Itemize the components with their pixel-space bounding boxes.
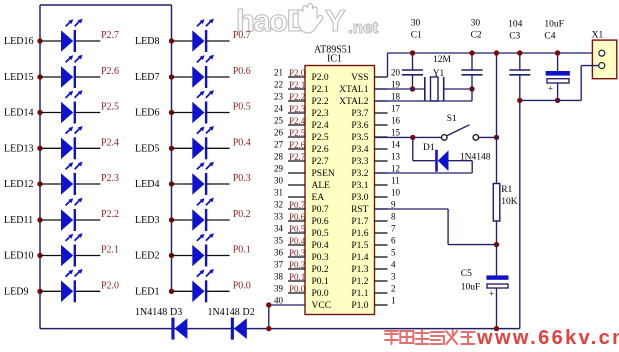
pin 40 (VCC) left stub [274, 296, 331, 312]
svg-text:P2.4: P2.4 [101, 137, 119, 148]
svg-text:1: 1 [391, 296, 396, 306]
svg-text:P2.1: P2.1 [101, 245, 119, 256]
svg-text:P0.6: P0.6 [289, 212, 306, 222]
svg-text:P1.0: P1.0 [351, 301, 368, 311]
svg-text:P0.7: P0.7 [312, 205, 329, 215]
svg-text:LED10: LED10 [4, 251, 33, 262]
LED LED7 [135, 55, 230, 88]
svg-text:32: 32 [274, 200, 283, 210]
svg-text:D3: D3 [170, 307, 182, 318]
svg-text:19: 19 [391, 80, 401, 90]
svg-text:P0.3: P0.3 [312, 253, 329, 263]
svg-text:C5: C5 [461, 269, 472, 279]
svg-text:104: 104 [508, 20, 522, 30]
svg-text:P0.0: P0.0 [312, 289, 329, 299]
pin 22 (P2.1) left stub [274, 80, 329, 96]
svg-text:P3.2: P3.2 [351, 169, 368, 179]
svg-text:24: 24 [274, 104, 284, 114]
svg-text:16: 16 [391, 116, 401, 126]
svg-text:VCC: VCC [312, 301, 332, 311]
svg-text:RST: RST [351, 205, 369, 215]
svg-text:34: 34 [274, 224, 284, 234]
wire P3.5 pin15 to switch [375, 135, 442, 140]
svg-text:LED9: LED9 [4, 286, 28, 297]
svg-text:1N4148: 1N4148 [135, 307, 167, 318]
svg-text:8: 8 [391, 212, 396, 222]
svg-text:LED12: LED12 [4, 179, 33, 190]
svg-text:31: 31 [274, 188, 283, 198]
svg-text:P2.6: P2.6 [312, 145, 329, 155]
diode D1 1N4148 [413, 137, 491, 173]
pin 30 (ALE) left stub [274, 176, 330, 192]
LED LED13 [4, 126, 100, 159]
svg-text:IC1: IC1 [327, 54, 342, 65]
svg-text:9: 9 [391, 200, 396, 210]
svg-text:21: 21 [274, 68, 283, 78]
pin 11 (P3.1) right stub [351, 176, 399, 192]
pin 1 (P1.0) right stub [351, 296, 395, 312]
svg-text:10uF: 10uF [544, 20, 564, 30]
svg-text:P1.4: P1.4 [351, 253, 368, 263]
svg-text:P2.6: P2.6 [101, 66, 119, 77]
pin 24 (P2.3) left stub [274, 104, 329, 120]
pin 36 (P0.3) left stub [274, 248, 329, 264]
pin 19 (XTAL1) right stub [339, 80, 400, 96]
wire P3.3 pin13 to D1 anode [375, 172, 473, 174]
pin 35 (P0.4) left stub [274, 236, 329, 252]
LED LED11 [4, 198, 100, 231]
svg-text:P0.1: P0.1 [312, 277, 329, 287]
svg-text:P1.5: P1.5 [351, 241, 368, 251]
svg-text:P2.2: P2.2 [289, 92, 305, 102]
connector X1 [592, 31, 617, 79]
LED LED8 [135, 19, 230, 52]
svg-text:10: 10 [391, 188, 401, 198]
svg-text:P2.0: P2.0 [101, 280, 119, 291]
switch S1 [442, 114, 479, 140]
svg-text:P2.3: P2.3 [289, 104, 306, 114]
svg-text:7: 7 [391, 224, 396, 234]
pin 2 (P1.1) right stub [351, 284, 395, 300]
svg-text:XTAL2: XTAL2 [339, 97, 369, 107]
svg-text:P0.7: P0.7 [233, 30, 251, 41]
svg-text:+: + [548, 84, 553, 94]
svg-text:P0.4: P0.4 [289, 236, 306, 246]
node P2.0 (wire label) [101, 280, 119, 291]
diode D3 1N4148 [135, 307, 187, 340]
svg-text:35: 35 [274, 236, 284, 246]
svg-text:P3.4: P3.4 [351, 145, 368, 155]
svg-text:P3.5: P3.5 [351, 133, 368, 143]
svg-text:37: 37 [274, 260, 284, 270]
svg-text:10K: 10K [501, 197, 518, 207]
svg-text:12: 12 [391, 164, 400, 174]
wire top rail of LED box [40, 4, 172, 6]
svg-text:LED7: LED7 [135, 72, 159, 83]
svg-text:1N4148: 1N4148 [460, 152, 491, 162]
svg-text:www.66kv.cn: www.66kv.cn [476, 327, 619, 347]
svg-text:3: 3 [391, 272, 396, 282]
svg-text:C1: C1 [411, 31, 422, 41]
node P0.2 (wire label) [233, 209, 251, 220]
pin 38 (P0.1) left stub [274, 272, 329, 288]
svg-text:P1.6: P1.6 [351, 229, 368, 239]
svg-text:P0.2: P0.2 [312, 265, 329, 275]
wire left LED bus [39, 5, 41, 329]
svg-text:15: 15 [391, 128, 401, 138]
decorative watermark (not circuit) [385, 330, 475, 344]
node P2.1 (wire label) [101, 245, 119, 256]
pin 3 (P1.2) right stub [351, 272, 396, 288]
svg-text:+: + [489, 289, 494, 299]
pin 6 (P1.5) right stub [351, 236, 396, 252]
svg-text:20: 20 [391, 68, 401, 78]
svg-text:P2.7: P2.7 [312, 157, 329, 167]
svg-text:LED15: LED15 [4, 72, 33, 83]
pin 27 (P2.6) left stub [274, 140, 329, 156]
svg-text:P3.7: P3.7 [351, 109, 368, 119]
pin 26 (P2.5) left stub [274, 128, 329, 144]
pin 21 (P2.0) left stub [274, 68, 329, 84]
svg-text:P2.5: P2.5 [312, 133, 329, 143]
pin 4 (P1.3) right stub [351, 260, 396, 276]
LED LED15 [4, 55, 100, 88]
svg-text:P0.2: P0.2 [289, 260, 305, 270]
svg-text:P0.1: P0.1 [289, 272, 305, 282]
svg-text:30: 30 [274, 176, 284, 186]
svg-text:P0.3: P0.3 [289, 248, 306, 258]
LED LED5 [135, 126, 230, 159]
svg-text:P2.4: P2.4 [312, 121, 329, 131]
svg-text:P0.5: P0.5 [233, 102, 251, 113]
svg-text:C2: C2 [471, 31, 482, 41]
pin 10 (P3.0) right stub [351, 188, 400, 204]
node P2.6 (wire label) [101, 66, 119, 77]
svg-text:P2.2: P2.2 [312, 97, 329, 107]
node P0.7 (wire label) [233, 30, 251, 41]
svg-text:LED2: LED2 [135, 251, 159, 262]
node P0.0 (wire label) [233, 280, 251, 291]
svg-text:P0.5: P0.5 [312, 229, 329, 239]
svg-text:.net: .net [348, 18, 379, 37]
pin 37 (P0.2) left stub [274, 260, 329, 276]
svg-text:P2.3: P2.3 [312, 109, 329, 119]
capacitor C3 104 [508, 20, 530, 329]
pin 20 (VSS) right stub [351, 68, 400, 84]
svg-text:P1.3: P1.3 [351, 265, 368, 275]
svg-text:LED14: LED14 [4, 108, 33, 119]
capacitor C5 10uF electrolytic [461, 245, 509, 332]
svg-text:ALE: ALE [312, 181, 331, 191]
LED LED16 [4, 19, 100, 52]
svg-text:P0.6: P0.6 [312, 217, 329, 227]
pin 28 (P2.7) left stub [274, 152, 329, 168]
node P2.2 (wire label) [101, 209, 119, 220]
node P2.4 (wire label) [101, 137, 119, 148]
svg-text:P0.4: P0.4 [233, 137, 251, 148]
svg-text:28: 28 [274, 152, 284, 162]
svg-text:P0.6: P0.6 [233, 66, 251, 77]
svg-text:P2.5: P2.5 [289, 128, 306, 138]
svg-text:P2.0: P2.0 [289, 68, 306, 78]
svg-text:33: 33 [274, 212, 284, 222]
node P0.5 (wire label) [233, 102, 251, 113]
svg-text:36: 36 [274, 248, 284, 258]
pin 16 (P3.6) right stub [351, 116, 400, 132]
svg-text:X1: X1 [592, 31, 604, 41]
svg-text:39: 39 [274, 284, 284, 294]
LED LED3 [135, 198, 230, 231]
svg-text:LED1: LED1 [135, 286, 159, 297]
pin 34 (P0.5) left stub [274, 224, 329, 240]
pin 17 (P3.7) right stub [351, 104, 400, 120]
svg-text:EA: EA [312, 193, 325, 203]
LED LED2 [135, 233, 230, 266]
svg-text:30: 30 [411, 19, 421, 29]
svg-text:P0.0: P0.0 [289, 284, 306, 294]
svg-text:P3.0: P3.0 [351, 193, 368, 203]
svg-text:P2.4: P2.4 [289, 116, 306, 126]
LED LED9 [4, 269, 100, 302]
svg-text:P0.7: P0.7 [289, 200, 306, 210]
svg-text:LED11: LED11 [4, 215, 33, 226]
svg-text:LED4: LED4 [135, 179, 159, 190]
svg-text:11: 11 [391, 176, 400, 186]
pin 9 (RST) right stub [351, 200, 396, 216]
node P2.7 (wire label) [101, 30, 119, 41]
svg-text:30: 30 [471, 19, 481, 29]
pin 29 (PSEN) left stub [274, 164, 335, 180]
svg-text:P2.5: P2.5 [101, 102, 119, 113]
svg-text:P2.7: P2.7 [101, 30, 119, 41]
svg-text:40: 40 [274, 296, 284, 306]
svg-text:P0.1: P0.1 [233, 245, 251, 256]
svg-text:P2.0: P2.0 [312, 73, 329, 83]
svg-text:C3: C3 [509, 32, 520, 42]
svg-text:P1.1: P1.1 [351, 289, 368, 299]
capacitor C1 30pF [402, 19, 423, 92]
svg-text:S1: S1 [447, 114, 457, 124]
svg-text:P2.6: P2.6 [289, 140, 306, 150]
svg-text:VSS: VSS [351, 73, 368, 83]
svg-text:LED16: LED16 [4, 36, 33, 47]
diode D2 1N4148 [208, 307, 255, 340]
svg-text:P1.2: P1.2 [351, 277, 368, 287]
resistor R1 10K [493, 184, 517, 245]
svg-text:C4: C4 [544, 32, 555, 42]
pin 31 (EA) left stub [274, 188, 324, 204]
pin 5 (P1.4) right stub [351, 248, 396, 264]
svg-text:P3.1: P3.1 [351, 181, 368, 191]
pin 8 (P1.7) right stub [351, 212, 396, 228]
svg-text:XTAL1: XTAL1 [339, 85, 369, 95]
svg-text:P2.1: P2.1 [312, 85, 329, 95]
pin 15 (P3.5) right stub [351, 128, 400, 144]
node P0.3 (wire label) [233, 173, 251, 184]
pin 13 (P3.3) right stub [351, 152, 400, 168]
svg-text:P0.4: P0.4 [312, 241, 329, 251]
svg-text:PSEN: PSEN [312, 169, 335, 179]
LED LED10 [4, 233, 100, 266]
svg-text:R1: R1 [501, 185, 512, 195]
LED LED1 [135, 269, 230, 302]
op-amp ... actually microcontroller U/IC1 AT89S51 body [305, 45, 375, 315]
svg-text:2: 2 [391, 284, 396, 294]
svg-text:LED8: LED8 [135, 36, 159, 47]
svg-text:P2.2: P2.2 [101, 209, 119, 220]
svg-text:LED5: LED5 [135, 143, 159, 154]
svg-text:10uF: 10uF [461, 283, 481, 293]
node P0.1 (wire label) [233, 245, 251, 256]
capacitor C4 10uF electrolytic [544, 20, 569, 104]
svg-text:P3.3: P3.3 [351, 157, 368, 167]
decorative logo (not labeled as circuit) [236, 3, 379, 38]
svg-text:P0.5: P0.5 [289, 224, 306, 234]
svg-text:P2.3: P2.3 [101, 173, 119, 184]
pin 12 (P3.2) right stub [351, 164, 400, 180]
wire top rail (VSS/ground net) [388, 53, 600, 77]
svg-text:12M: 12M [433, 55, 452, 65]
svg-text:6: 6 [391, 236, 396, 246]
svg-text:5: 5 [391, 248, 396, 258]
node P0.4 (wire label) [233, 137, 251, 148]
pin 32 (P0.7) left stub [274, 200, 329, 216]
svg-text:P0.3: P0.3 [233, 173, 251, 184]
svg-text:18: 18 [391, 92, 401, 102]
pin 39 (P0.0) left stub [274, 284, 329, 300]
svg-text:D2: D2 [243, 307, 255, 318]
svg-text:P0.2: P0.2 [233, 209, 251, 220]
wire bottom VCC rail [40, 328, 520, 330]
node P2.3 (wire label) [101, 173, 119, 184]
svg-text:27: 27 [274, 140, 284, 150]
svg-text:LED13: LED13 [4, 143, 33, 154]
svg-text:38: 38 [274, 272, 284, 282]
svg-text:4: 4 [391, 260, 396, 270]
svg-text:Y1: Y1 [433, 69, 445, 79]
pin 14 (P3.4) right stub [351, 140, 400, 156]
svg-text:13: 13 [391, 152, 401, 162]
LED LED14 [4, 90, 100, 123]
LED LED12 [4, 162, 100, 195]
svg-text:25: 25 [274, 116, 284, 126]
wire switch right to rail branch [479, 50, 500, 183]
pin 25 (P2.4) left stub [274, 116, 329, 132]
pin 23 (P2.2) left stub [274, 92, 329, 108]
svg-text:22: 22 [274, 80, 283, 90]
svg-text:LED3: LED3 [135, 215, 159, 226]
wire second LED bus [171, 5, 173, 291]
wire X1 lower pin to VCC node [520, 66, 599, 101]
svg-text:26: 26 [274, 128, 284, 138]
svg-text:P2.1: P2.1 [289, 80, 305, 90]
svg-text:D1: D1 [423, 143, 435, 153]
svg-text:14: 14 [391, 140, 401, 150]
svg-text:23: 23 [274, 92, 284, 102]
svg-text:Y: Y [325, 3, 346, 38]
svg-text:P0.0: P0.0 [233, 280, 251, 291]
LED LED4 [135, 162, 230, 195]
node P0.6 (wire label) [233, 66, 251, 77]
node P2.5 (wire label) [101, 102, 119, 113]
svg-text:17: 17 [391, 104, 401, 114]
pin 33 (P0.6) left stub [274, 212, 329, 228]
svg-text:LED6: LED6 [135, 108, 159, 119]
svg-text:P3.6: P3.6 [351, 121, 368, 131]
crystal Y1 12MHz [375, 55, 475, 101]
capacitor C2 30pF [462, 19, 483, 102]
wire VCC pin40 to bottom rail [266, 302, 305, 331]
svg-text:1N4148: 1N4148 [208, 307, 240, 318]
svg-text:P2.7: P2.7 [289, 152, 306, 162]
wire RST pin9 to R1/C5 node [375, 209, 500, 247]
pin 18 (XTAL2) right stub [339, 92, 400, 108]
LED LED6 [135, 90, 230, 123]
svg-text:P1.7: P1.7 [351, 217, 368, 227]
wire XTAL2 pin18 [375, 100, 473, 102]
pin 7 (P1.6) right stub [351, 224, 396, 240]
svg-text:29: 29 [274, 164, 284, 174]
